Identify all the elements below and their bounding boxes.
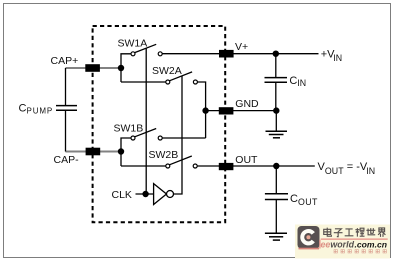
inverter output bubble [167, 191, 174, 198]
capacitor C_IN [265, 78, 288, 83]
ground symbol (C_OUT) [265, 233, 287, 240]
pin OUT [219, 163, 234, 170]
wire CAP- lead (gray) [66, 151, 122, 153]
capacitor C_OUT bottom lead [275, 200, 277, 234]
wire CLK input [136, 193, 154, 195]
IC dashed boundary [93, 26, 226, 222]
svg-text:SW1B: SW1B [114, 123, 144, 135]
node CLK junction [142, 191, 148, 197]
svg-text:V+: V+ [235, 41, 248, 53]
capacitor C_IN top lead [275, 54, 277, 77]
capacitor C_OUT top lead [275, 166, 277, 193]
wire inverter output control line to SW2A/SW2B arms [173, 76, 182, 194]
wire SW1B right to GND vertical [162, 137, 205, 139]
switch SW1A arm [135, 44, 157, 52]
svg-text:OUT: OUT [235, 154, 258, 166]
op-amp U1 inverter triangle [154, 184, 167, 205]
capacitor C_IN bottom lead [275, 82, 277, 110]
node V+ / C_IN top junction [273, 51, 279, 57]
switch SW1B arm [135, 129, 157, 137]
switch SW1A right contact [158, 52, 162, 56]
wire CAP+ node to SW2A left [121, 81, 166, 83]
switch SW2A left contact [166, 80, 170, 84]
svg-text:eeworld: eeworld [321, 239, 355, 249]
logo Chinese title (drawn strokes) [324, 228, 386, 237]
switch SW2A arm [169, 72, 192, 81]
logo salmon tick [319, 240, 320, 249]
switch SW1A left contact [131, 52, 135, 56]
wire CAP+ lead (gray) [66, 67, 122, 69]
logo slogan marks [334, 250, 386, 253]
switch SW1B left contact [131, 136, 135, 140]
pin GND [219, 107, 234, 114]
node C_OUT top junction [273, 163, 279, 169]
wire SW1A right to V+ rail [162, 53, 318, 55]
svg-text:CAP-: CAP- [54, 154, 80, 166]
switch SW1B right contact [158, 136, 162, 140]
svg-text:SW2B: SW2B [149, 149, 179, 161]
capacitor C_PUMP bottom lead [65, 110, 67, 151]
svg-text:GND: GND [235, 98, 259, 110]
wire CAP+ node to SW1A/SW2A [121, 54, 131, 82]
wire CAP- node to SW1B [121, 138, 131, 166]
svg-text:.com.cn: .com.cn [355, 240, 388, 249]
capacitor C_PUMP [56, 106, 77, 111]
node CAP+ junction [118, 65, 124, 71]
switch SW2A right contact [193, 80, 197, 84]
logo salmon underline [321, 238, 388, 240]
svg-text:SW1A: SW1A [118, 38, 148, 50]
capacitor C_OUT [265, 194, 288, 200]
svg-text:CLK: CLK [112, 189, 132, 201]
wire CAP- node to SW2B left [121, 165, 166, 167]
capacitor C_PUMP top lead [65, 68, 67, 105]
switch SW2B right contact [193, 164, 197, 168]
wire SW2A right down to GND node [197, 82, 205, 138]
wire CLK control line to SW1A/SW1B arms [145, 48, 147, 194]
node C_IN bottom junction [273, 107, 279, 113]
wire GND rail [206, 110, 277, 112]
wire SW2B right to OUT rail [197, 165, 315, 167]
logo icon [298, 226, 320, 249]
pin CAP+ [85, 64, 100, 72]
pin CAP- [86, 148, 101, 156]
svg-text:SW2A: SW2A [152, 65, 182, 77]
switch SW2B left contact [166, 164, 170, 168]
node CAP- junction [118, 148, 124, 154]
watermark logo background [295, 225, 390, 259]
switch SW2B arm [169, 156, 191, 165]
pin V+ [219, 50, 234, 58]
ground symbol (GND rail) [266, 111, 288, 138]
node GND junction [202, 107, 208, 113]
svg-text:CAP+: CAP+ [51, 55, 79, 67]
